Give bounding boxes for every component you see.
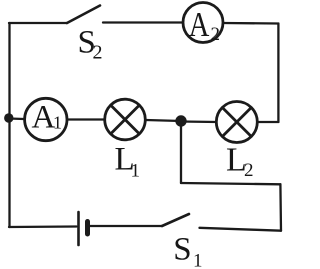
svg-text:2: 2: [211, 24, 221, 45]
svg-text:2: 2: [93, 42, 103, 64]
svg-text:A: A: [32, 100, 56, 136]
svg-text:S: S: [173, 231, 191, 267]
svg-text:1: 1: [131, 161, 141, 182]
svg-text:2: 2: [244, 160, 254, 181]
svg-text:1: 1: [53, 113, 62, 133]
svg-text:A: A: [189, 5, 210, 44]
svg-text:1: 1: [193, 251, 203, 269]
